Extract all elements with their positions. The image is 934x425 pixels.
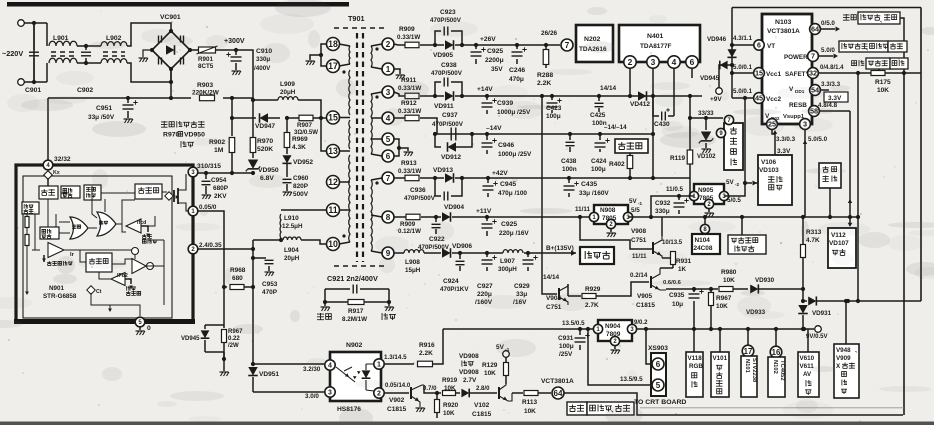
diode VD913 [445, 173, 454, 183]
svg-text:10K: 10K [716, 303, 728, 310]
svg-text:C425: C425 [590, 112, 606, 119]
svg-text:8CT5: 8CT5 [198, 63, 214, 70]
capacitor C423 [550, 94, 554, 98]
capacitor C430 [651, 94, 655, 98]
wire frame top right [732, 7, 921, 9]
status box sound standby [587, 402, 634, 415]
svg-text:6: 6 [690, 57, 695, 67]
svg-text:VD950: VD950 [258, 167, 279, 174]
svg-text:4.3K: 4.3K [292, 144, 306, 151]
wire 11V bus right [628, 216, 860, 218]
svg-text:3: 3 [328, 390, 332, 397]
transformer pin 3 [382, 86, 394, 98]
svg-text:10: 10 [328, 239, 338, 249]
block thermal protect [84, 185, 101, 200]
inductor L910 [281, 209, 327, 211]
wire to optocoupler pin3 [253, 391, 324, 393]
block V118 RGB [692, 327, 696, 331]
resistor R916 [418, 361, 433, 367]
IC N202 TDA2616 [576, 25, 613, 62]
svg-text:470P/500V: 470P/500V [432, 121, 464, 128]
svg-text:VD930: VD930 [755, 277, 775, 284]
svg-text:STR-G6858: STR-G6858 [43, 293, 77, 300]
svg-text:R113: R113 [522, 399, 537, 406]
svg-text:5/5: 5/5 [631, 207, 640, 214]
svg-text:C1815: C1815 [636, 302, 655, 309]
status box normal [567, 402, 587, 415]
svg-text:0.33/1W: 0.33/1W [397, 34, 420, 41]
svg-text:、: 、 [880, 18, 885, 24]
svg-text:5V: 5V [629, 198, 637, 205]
svg-text:470P/1KV: 470P/1KV [440, 286, 469, 293]
block reference [22, 202, 39, 214]
resistor R119 [687, 150, 693, 164]
svg-text:5: 5 [386, 135, 391, 144]
block V101 IF [718, 327, 722, 331]
svg-text:2.8/0: 2.8/0 [476, 386, 490, 392]
capacitor C937 [450, 128, 452, 141]
svg-text:2.2K: 2.2K [419, 350, 433, 357]
inductor L904 [280, 238, 282, 240]
or gate 2 [97, 212, 116, 236]
or gate 1 [70, 217, 88, 239]
svg-text:11/0.5: 11/0.5 [666, 186, 684, 193]
svg-text:2: 2 [377, 391, 381, 398]
regulator N908 7805 [594, 205, 628, 224]
svg-text:N902: N902 [346, 342, 363, 349]
wire input vertical [33, 23, 35, 82]
svg-text:1000μ /25V: 1000μ /25V [498, 151, 532, 158]
wire N905 output [724, 98, 745, 196]
svg-text:8: 8 [386, 213, 391, 222]
svg-text:C1815: C1815 [387, 406, 407, 413]
svg-text:R119: R119 [670, 155, 685, 162]
resistor R129 [503, 351, 510, 358]
svg-text:6: 6 [656, 360, 661, 369]
wire B+ rail [394, 252, 404, 254]
block V112 VD107 [828, 228, 856, 268]
svg-text:SAFETY: SAFETY [785, 71, 810, 78]
svg-text:5/0.5: 5/0.5 [727, 197, 741, 204]
wire pin1 to ground [394, 69, 400, 74]
wire 14V to V904 [540, 94, 544, 98]
pin 4 N902 [325, 360, 335, 370]
svg-text:L902: L902 [106, 35, 122, 42]
svg-text:0.33/1W: 0.33/1W [398, 168, 421, 175]
svg-text:2: 2 [628, 57, 633, 67]
wire +300V [216, 50, 253, 100]
svg-text:AV: AV [803, 371, 812, 378]
svg-text:、: 、 [866, 46, 871, 52]
svg-text:C936: C936 [410, 187, 426, 194]
capacitor C902 [81, 51, 91, 53]
threshold 1 label [142, 234, 147, 239]
svg-text:R969: R969 [292, 136, 308, 143]
svg-text:10K: 10K [524, 408, 536, 415]
diode VD905 [445, 40, 454, 50]
inductor L909 [253, 99, 278, 101]
svg-text:10K: 10K [723, 277, 735, 284]
svg-text:VD107: VD107 [829, 240, 849, 247]
pin 1 N901 right mid [188, 206, 198, 216]
capacitor C425 [597, 94, 601, 98]
block V106 regulator [758, 155, 792, 205]
svg-text:VD945: VD945 [181, 336, 200, 342]
svg-text:VD945: VD945 [700, 75, 720, 82]
svg-text:C927: C927 [477, 283, 493, 290]
svg-text:15μH: 15μH [405, 267, 421, 274]
svg-text:1: 1 [386, 65, 391, 74]
block reset circuit [819, 163, 841, 188]
polarity dots [342, 70, 345, 73]
line output box [580, 247, 614, 264]
block start-up [47, 178, 49, 186]
wire 13.5V bus [443, 328, 596, 330]
svg-text:~220V: ~220V [2, 49, 23, 58]
svg-text:3.3/0.3: 3.3/0.3 [776, 136, 796, 143]
transformer pin 5 [382, 133, 394, 145]
wire main return rail [48, 97, 191, 99]
svg-text:6: 6 [386, 152, 391, 161]
svg-text:17: 17 [328, 61, 338, 71]
svg-text:C946: C946 [498, 142, 514, 149]
diode VD911 [445, 91, 454, 101]
svg-text:C954: C954 [211, 177, 227, 184]
svg-text:1M: 1M [214, 147, 224, 154]
svg-text:VD913: VD913 [433, 167, 453, 174]
inductor L908 [404, 250, 424, 253]
wire source pin net [198, 211, 224, 325]
transistor V102 [498, 387, 500, 399]
svg-text:1K: 1K [678, 266, 687, 273]
regulator N904 7809 [586, 327, 590, 331]
svg-text:STV2238: STV2238 [751, 358, 757, 383]
svg-text:R970: R970 [257, 138, 273, 145]
svg-text:VD952: VD952 [293, 159, 313, 166]
zener VD102 [705, 118, 707, 130]
svg-text:10μ: 10μ [672, 301, 683, 308]
svg-text:TO CRT BOARD: TO CRT BOARD [634, 399, 686, 406]
capacitor C935 [666, 288, 694, 290]
svg-text:5.0/0: 5.0/0 [821, 47, 835, 54]
diode VD V102 base [461, 389, 469, 398]
resistor R909 [405, 42, 419, 48]
svg-text:TDA8177F: TDA8177F [640, 43, 672, 50]
svg-text:VD912: VD912 [441, 154, 461, 161]
svg-text:C751: C751 [631, 237, 647, 244]
svg-text:64: 64 [811, 25, 820, 34]
svg-text:R907: R907 [297, 122, 312, 129]
svg-text:VD905: VD905 [433, 52, 453, 59]
svg-text:820P: 820P [293, 183, 309, 190]
pin 4 N901 top [43, 160, 53, 170]
capacitor C945 [486, 176, 490, 180]
svg-text:300μH: 300μH [498, 266, 517, 273]
svg-text:32/32: 32/32 [54, 156, 71, 163]
pin 2 N901 right low [188, 244, 198, 254]
transformer core [334, 27, 386, 29]
resistor R402 [629, 153, 631, 155]
transistor V904 [558, 288, 560, 300]
optocoupler internals [336, 367, 355, 382]
svg-text:VD904: VD904 [444, 204, 464, 211]
svg-text:R912: R912 [401, 100, 417, 107]
svg-text:VD950: VD950 [184, 132, 205, 139]
svg-text:C924: C924 [443, 278, 459, 285]
svg-text:100μ: 100μ [559, 343, 574, 350]
diode VD945 source clamp [205, 324, 224, 326]
wire pin1 net [385, 363, 414, 365]
regulator N104 24C08 [703, 215, 707, 219]
resistor R912 [405, 115, 419, 121]
diode VD904 [442, 212, 451, 222]
svg-text:24C08: 24C08 [694, 245, 713, 252]
svg-text:520K: 520K [257, 146, 273, 153]
pin 4 N401 [668, 56, 680, 68]
svg-text:680: 680 [232, 275, 243, 282]
resistor R113 [512, 392, 523, 394]
svg-text:C951: C951 [96, 105, 112, 112]
error amp [48, 243, 64, 258]
svg-text:R967: R967 [716, 295, 732, 302]
svg-text:470P/500V: 470P/500V [404, 195, 436, 202]
svg-text:VD102: VD102 [697, 154, 716, 160]
svg-text:VD911: VD911 [434, 103, 454, 110]
zener VD950 [248, 160, 258, 169]
svg-text:R913: R913 [401, 160, 417, 167]
resistor R917 [325, 301, 348, 303]
transformer pin 4 [382, 112, 394, 124]
buffer triangle [132, 259, 146, 274]
capacitor C424 [598, 132, 602, 136]
svg-text:5: 5 [656, 381, 661, 390]
capacitor C922 [434, 215, 438, 219]
wire feedback column [252, 240, 254, 364]
capacitor C938 [433, 94, 437, 98]
transformer pin 2 [382, 38, 394, 50]
svg-text:R980: R980 [721, 269, 737, 276]
svg-text:R916: R916 [419, 342, 435, 349]
svg-text:/400V: /400V [254, 65, 271, 72]
wire drain snubber net [198, 248, 253, 250]
inductor L901 [46, 23, 48, 46]
wire xray feed [844, 299, 848, 303]
capacitor C923 [433, 43, 437, 47]
svg-text:0.22: 0.22 [228, 336, 240, 342]
transformer pin 7 [382, 172, 394, 184]
capacitor C954 [205, 173, 207, 179]
svg-text:15: 15 [328, 113, 338, 123]
wire VD947 line [232, 117, 256, 119]
svg-text:C931: C931 [558, 335, 574, 342]
IC N901 STR-G6858 outline [16, 165, 193, 322]
svg-text:N904: N904 [605, 323, 621, 330]
svg-text:RGB: RGB [689, 363, 703, 370]
svg-text:L909: L909 [280, 81, 295, 88]
current source circle [132, 248, 139, 255]
svg-text:R175: R175 [875, 79, 891, 86]
svg-text:1.3/14.5: 1.3/14.5 [384, 354, 407, 361]
transformer pin 18 [327, 38, 340, 51]
svg-text:17: 17 [744, 347, 753, 356]
resistor R902 [231, 98, 233, 136]
svg-text:Ct: Ct [96, 289, 102, 295]
capacitor C960 [283, 178, 292, 180]
capacitor C931 [578, 327, 582, 331]
pin 6 VT [754, 40, 764, 50]
svg-text:3.3V: 3.3V [828, 95, 842, 102]
svg-text:VD906: VD906 [452, 243, 472, 250]
svg-text:N102: N102 [772, 360, 778, 374]
wire VD931 line [803, 300, 807, 302]
diode VD951 [248, 367, 258, 376]
note text batch production [161, 121, 168, 128]
capacitor C932 [651, 196, 689, 217]
svg-text:0/4.8/1.4: 0/4.8/1.4 [820, 65, 844, 71]
capacitor C246 [515, 43, 519, 47]
svg-text:4.7K: 4.7K [806, 237, 820, 244]
terminal +9V [716, 88, 723, 95]
svg-text:14/14: 14/14 [600, 85, 617, 92]
transformer pin 8 [382, 211, 394, 223]
transformer primary winding [348, 46, 351, 64]
svg-text:V905: V905 [637, 293, 652, 300]
svg-text:3.2/30: 3.2/30 [303, 366, 321, 373]
resistor R911 [405, 93, 419, 99]
svg-text:VD103: VD103 [759, 167, 779, 174]
svg-text:POWER: POWER [784, 54, 808, 61]
svg-text:VD931: VD931 [812, 310, 832, 317]
svg-text:16: 16 [772, 348, 781, 357]
wire +14V rail [394, 92, 405, 96]
pin 3 N401 [647, 56, 659, 68]
svg-text:C935: C935 [669, 292, 685, 299]
svg-text:C435: C435 [581, 181, 597, 188]
transformer pin 9 [382, 247, 394, 259]
capacitor C438 [568, 132, 572, 136]
pin 2 N401 [624, 56, 636, 68]
pin 3 N902 [325, 387, 335, 397]
threshold 2 label [127, 286, 131, 291]
wire to optocoupler pin4 [253, 363, 324, 365]
resistor R913 [405, 175, 419, 181]
svg-text:B+(135V): B+(135V) [546, 245, 574, 252]
svg-text:N905: N905 [698, 187, 714, 194]
svg-text:10K: 10K [444, 385, 456, 392]
svg-text:3: 3 [651, 57, 656, 67]
svg-text:4.3/1.1: 4.3/1.1 [733, 35, 753, 42]
svg-text:9V/0.5V: 9V/0.5V [806, 334, 828, 340]
svg-text:IFb2: IFb2 [117, 273, 128, 279]
svg-text:R929: R929 [585, 286, 601, 293]
pin 5 N901 bottom [135, 317, 145, 327]
wire frame top left [731, 8, 733, 99]
svg-text:、: 、 [855, 348, 860, 354]
svg-text:R901: R901 [198, 56, 213, 63]
ground at bridge [143, 50, 152, 57]
resistor R903 [200, 95, 215, 101]
svg-text:V908: V908 [631, 228, 646, 235]
svg-text:33μ /50V: 33μ /50V [88, 114, 115, 121]
svg-text:+26V: +26V [480, 36, 496, 43]
svg-text:RESB: RESB [789, 102, 807, 109]
svg-text:10K: 10K [443, 410, 455, 417]
svg-text:100μ: 100μ [591, 166, 606, 173]
wire R119 column [690, 96, 694, 196]
regulator N905 7805 [694, 184, 724, 204]
IC N401 TDA8177F [619, 25, 700, 62]
svg-text:100μ: 100μ [546, 113, 561, 120]
svg-text:C932: C932 [655, 200, 671, 207]
svg-text:R129: R129 [482, 362, 498, 369]
block driver [135, 184, 162, 199]
svg-text:C246: C246 [509, 67, 525, 74]
svg-text:VC901: VC901 [160, 14, 181, 21]
svg-text:L901: L901 [53, 35, 69, 42]
IC N103 VCT3801A [762, 14, 812, 124]
transformer pin 6 [382, 150, 394, 162]
svg-text:13.5/0.5: 13.5/0.5 [562, 320, 585, 327]
svg-text:C902: C902 [77, 87, 93, 94]
diode VD947 [260, 113, 269, 123]
scan edge band [0, 422, 934, 425]
wire pin2 net [385, 392, 409, 394]
capacitor C925 [474, 43, 478, 47]
svg-text:0/5.0: 0/5.0 [821, 20, 835, 27]
svg-text:+9V: +9V [710, 96, 722, 103]
wire VD930 line [694, 288, 711, 290]
svg-text:C953: C953 [262, 281, 278, 288]
pin 1 N902 [374, 359, 384, 369]
svg-text:C925: C925 [501, 221, 517, 228]
svg-text:R920: R920 [443, 402, 459, 409]
svg-text:45: 45 [755, 94, 763, 103]
svg-text:9/0.2: 9/0.2 [634, 320, 648, 326]
svg-text:C1815: C1815 [472, 411, 492, 418]
tuner block [724, 123, 743, 170]
pin 15 Vcc1 [754, 68, 765, 79]
svg-text:/2W: /2W [228, 343, 239, 349]
resistor R967 2 [710, 289, 712, 292]
svg-text:5.0/5.0: 5.0/5.0 [808, 136, 828, 143]
wire sense line y=173 [196, 172, 253, 174]
svg-text:Ifcd: Ifcd [137, 220, 146, 226]
capacitor C910 [235, 50, 237, 55]
wire L901-C902 [77, 45, 86, 47]
svg-text:L910: L910 [284, 215, 299, 222]
wire V106 to pin 25 [774, 132, 776, 155]
mosfet V in N901 [167, 195, 172, 197]
status row 3 [852, 61, 857, 66]
svg-text:C901: C901 [25, 87, 41, 94]
svg-text:L904: L904 [284, 247, 299, 254]
status box standby headset [858, 12, 900, 24]
wire +42V rail [394, 177, 405, 179]
cold ground [388, 302, 390, 306]
svg-text:VD951: VD951 [259, 371, 279, 378]
transformer pin 13 [327, 145, 340, 158]
wire +11V rail [394, 216, 406, 218]
svg-text:C424: C424 [591, 158, 607, 165]
capacitor C924 [458, 251, 462, 255]
svg-text:470P: 470P [262, 289, 278, 296]
svg-text:11: 11 [328, 205, 337, 215]
svg-text:0.12/1W: 0.12/1W [398, 228, 421, 235]
pin 64 POWER line [810, 24, 821, 35]
wire to bridge [127, 23, 171, 46]
capacitor C927 [485, 251, 489, 255]
node 9V terminal [815, 326, 822, 333]
